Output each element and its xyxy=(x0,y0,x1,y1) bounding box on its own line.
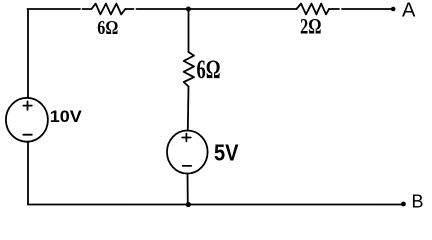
wire middle vertical (between R3 and V2) xyxy=(187,87,190,131)
voltage source V1 10V (circle symbol) xyxy=(6,98,48,142)
resistor R1 6ohm (top-left, horizontal zigzag) xyxy=(92,4,126,15)
wire top-middle horizontal segment xyxy=(125,8,296,10)
svg-text:2Ω: 2Ω xyxy=(300,13,322,38)
voltage source V2 5V (circle symbol) xyxy=(167,131,208,174)
V2 minus polarity mark xyxy=(183,165,192,167)
svg-text:6Ω: 6Ω xyxy=(97,17,118,39)
node junction dot (bottom middle) xyxy=(186,202,191,207)
wire middle vertical (lower) xyxy=(187,174,189,205)
svg-text:B: B xyxy=(412,192,424,211)
wire top-left horizontal segment xyxy=(28,8,92,10)
V1 plus polarity mark xyxy=(23,101,32,110)
svg-text:6Ω: 6Ω xyxy=(197,55,221,84)
node B terminal dot xyxy=(401,202,406,207)
wire left vertical (lower) xyxy=(27,142,29,204)
resistor R3 6ohm (middle, vertical zigzag) xyxy=(184,52,194,87)
wire left vertical (upper) xyxy=(27,9,29,98)
wire middle vertical (upper) xyxy=(188,9,190,52)
resistor R2 2ohm (top-right, horizontal zigzag) xyxy=(297,4,330,15)
V2 plus polarity mark xyxy=(182,134,191,142)
wire top-right horizontal segment to terminal A xyxy=(329,8,392,10)
node junction dot (top middle) xyxy=(186,7,191,12)
svg-text:A: A xyxy=(402,0,416,21)
V1 minus polarity mark xyxy=(23,134,32,136)
svg-text:10V: 10V xyxy=(50,107,83,126)
wire bottom horizontal to terminal B xyxy=(28,204,402,206)
svg-text:5V: 5V xyxy=(214,139,239,165)
node A terminal dot xyxy=(391,7,396,12)
